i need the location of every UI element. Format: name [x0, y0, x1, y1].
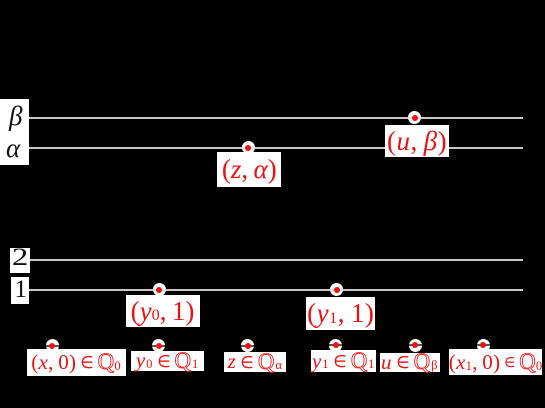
point z on alpha line [242, 141, 255, 154]
point x1 on bottom line [477, 339, 490, 352]
node y1 in Q1 label [311, 350, 376, 372]
node (u,beta) label [385, 125, 449, 157]
point y0 on bottom line [152, 339, 165, 352]
wire: line 2 [29, 259, 523, 261]
point y1 on line 1 [330, 283, 343, 296]
point y1 on bottom line [329, 339, 342, 352]
node (x,0) in Q0 label [27, 349, 126, 377]
node (y0,1) label [126, 295, 200, 327]
node (x1,0) in Q0 label [449, 349, 543, 375]
node u in Qbeta label [380, 353, 440, 372]
node label 2 box [10, 248, 30, 273]
point u on bottom line [409, 339, 422, 352]
node label 1 box [11, 277, 29, 304]
node label beta/alpha axis box [0, 99, 29, 165]
wire: line beta [29, 117, 523, 119]
wire: line 1 [29, 289, 523, 291]
point u on beta line [408, 111, 421, 124]
point x0 on bottom line [46, 339, 59, 352]
node z in Qalpha label [224, 352, 286, 372]
wire: line alpha [29, 147, 523, 149]
node (z,alpha) label [217, 152, 281, 187]
node y0 in Q1 label [131, 351, 204, 372]
point z on bottom line [241, 339, 254, 352]
point y0 on line 1 [153, 283, 166, 296]
node (y1,1) label [306, 297, 375, 329]
